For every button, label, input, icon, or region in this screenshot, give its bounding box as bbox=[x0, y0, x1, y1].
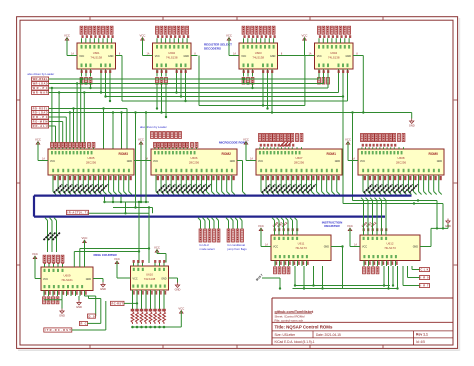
svg-text:VCC: VCC bbox=[138, 137, 144, 141]
svg-text:28C256: 28C256 bbox=[396, 161, 407, 165]
decoder U603 output wire right bbox=[278, 55, 285, 57]
svg-text:VCC: VCC bbox=[43, 278, 48, 281]
svg-text:74LS138: 74LS138 bbox=[90, 56, 102, 60]
U611 input pins from IR bus bbox=[274, 231, 276, 235]
ROM U607 output net name labels (slanted) bbox=[262, 184, 270, 192]
resistor R603 bbox=[140, 309, 144, 312]
svg-text:RD-MEM: RD-MEM bbox=[33, 120, 48, 124]
svg-text:74LS173: 74LS173 bbox=[295, 246, 307, 250]
ROM U606 output net name labels (slanted) bbox=[157, 184, 165, 192]
svg-text:GND: GND bbox=[127, 160, 133, 163]
svg-text:GND: GND bbox=[175, 288, 181, 292]
svg-text:U602: U602 bbox=[168, 51, 175, 55]
net label RD-PC bbox=[32, 115, 49, 119]
decoder U604 output wire right bbox=[353, 55, 360, 57]
svg-text:GND: GND bbox=[76, 305, 82, 309]
GND under pin 8 of U609 bbox=[78, 296, 80, 300]
svg-text:U603: U603 bbox=[255, 51, 262, 55]
net label IR0 bbox=[420, 276, 430, 280]
wire drop from U603 bbox=[284, 55, 305, 57]
svg-text:RD-ALU: RD-ALU bbox=[33, 124, 48, 128]
net label WR-LOAD bbox=[32, 82, 49, 86]
IR bus (lower) bbox=[34, 216, 385, 218]
GND wire from U611 bbox=[331, 246, 343, 248]
GND right of U609 bbox=[100, 282, 106, 291]
wire drop from U601 bbox=[121, 56, 123, 102]
ROM gap wires down to ring counter bbox=[135, 113, 137, 208]
decoder U604 74LS138 bbox=[315, 43, 354, 69]
frame zone tick marks bbox=[89, 17, 91, 21]
U610 bottom pins to resistor network bbox=[132, 290, 134, 309]
svg-text:WR-LOAD: WR-LOAD bbox=[33, 82, 48, 86]
slanted pin marks above U607 bbox=[280, 142, 285, 147]
wire drop from U602 bbox=[198, 56, 200, 106]
svg-text:RC-RST: RC-RST bbox=[112, 302, 124, 306]
svg-text:28C256: 28C256 bbox=[86, 161, 97, 165]
svg-text:IR-ACT[0..7]: IR-ACT[0..7] bbox=[68, 211, 88, 215]
net label RD-ALU bbox=[32, 124, 49, 128]
svg-text:ROM3: ROM3 bbox=[118, 152, 128, 156]
svg-text:VCC: VCC bbox=[302, 33, 308, 37]
svg-text:Title: NQSAP Control ROMs: Title: NQSAP Control ROMs bbox=[275, 325, 333, 330]
title block bbox=[272, 297, 453, 299]
VCC for U608 bbox=[345, 137, 351, 144]
ROM U608 28C256 (ROM0) bbox=[358, 149, 444, 175]
decoder U601 74LS138 bbox=[77, 43, 116, 69]
GND wire from U612 bbox=[420, 246, 431, 248]
GND wire for U605 bbox=[134, 160, 141, 162]
bus entries feeding U611 bbox=[272, 218, 275, 221]
U611 bottom pins bbox=[274, 261, 276, 267]
svg-text:GND: GND bbox=[345, 55, 351, 58]
svg-text:U601: U601 bbox=[93, 51, 100, 55]
svg-text:VCC: VCC bbox=[273, 246, 278, 249]
svg-text:VCC: VCC bbox=[226, 33, 232, 37]
net label RD-MEM bbox=[32, 120, 49, 124]
svg-text:VCC: VCC bbox=[154, 245, 160, 249]
svg-text:mode select: mode select bbox=[200, 247, 215, 251]
wires from U609 to labels below bbox=[75, 295, 77, 297]
wires right of U608 to GND rail bbox=[353, 200, 438, 202]
GND top right bbox=[409, 119, 415, 128]
decoder U602 74LS138 bbox=[153, 43, 192, 69]
VCC for U603 bbox=[226, 33, 232, 40]
net label RD-RSEL bbox=[32, 107, 49, 111]
svg-text:Id: 4/5: Id: 4/5 bbox=[416, 340, 425, 344]
net label RC-RST bbox=[111, 301, 125, 305]
horizontal wires mid (decoder selects) bbox=[106, 96, 344, 98]
svg-text:VCC: VCC bbox=[258, 224, 264, 228]
svg-text:28C256: 28C256 bbox=[294, 161, 305, 165]
ROM U606 top address pins with labels bbox=[154, 147, 156, 149]
svg-text:also driven by Loader: also driven by Loader bbox=[27, 72, 54, 76]
U604 pin pass-through wire down ROM gap bbox=[342, 77, 344, 97]
svg-text:1A: 1A bbox=[42, 157, 45, 160]
net label IR7 bbox=[420, 284, 430, 288]
svg-text:U611: U611 bbox=[298, 242, 305, 246]
ROM U606 28C256 (ROM2) bbox=[151, 149, 237, 175]
ROM U608 bottom data/output pins to bus bbox=[362, 175, 364, 192]
resistor pullup rail to VCC bbox=[133, 326, 182, 328]
net label WR-MAR bbox=[32, 91, 49, 95]
resistor R607 bbox=[158, 309, 162, 312]
svg-text:VCC: VCC bbox=[64, 33, 70, 37]
VCC for U606 bbox=[138, 137, 144, 144]
VCC power symbol bbox=[154, 245, 160, 252]
resistor R602 bbox=[135, 309, 139, 312]
resistor R606 bbox=[153, 309, 157, 312]
svg-text:WR-PC: WR-PC bbox=[33, 86, 48, 90]
decoder U602 bottom pins bbox=[156, 69, 158, 77]
net label CLK bbox=[420, 268, 430, 272]
GND instruction register bbox=[445, 219, 451, 229]
svg-text:GND: GND bbox=[335, 160, 341, 163]
svg-text:74LS173: 74LS173 bbox=[384, 246, 396, 250]
svg-text:1A: 1A bbox=[265, 243, 268, 246]
svg-text:74LS138: 74LS138 bbox=[328, 56, 340, 60]
page shadow bbox=[18, 349, 460, 351]
instruction register U611 74LS173 bbox=[271, 235, 331, 261]
svg-text:GND: GND bbox=[108, 55, 114, 58]
bus exits: ALU mode select group bbox=[198, 218, 201, 221]
wires feeding U612 from main bus bbox=[361, 198, 364, 201]
svg-text:28C256: 28C256 bbox=[189, 161, 200, 165]
svg-text:VCC: VCC bbox=[82, 236, 88, 240]
svg-text:U608: U608 bbox=[398, 156, 405, 160]
VCC above U609 bbox=[82, 236, 88, 243]
GND right of U609 bbox=[93, 278, 103, 280]
extra net labels above ROM U606 bbox=[151, 132, 154, 139]
resistor R608 bbox=[162, 309, 166, 312]
svg-text:1A: 1A bbox=[352, 157, 355, 160]
ROM U607 bottom data/output pins to bus bbox=[260, 175, 262, 192]
wires from bus down to ring counter inputs bbox=[45, 218, 48, 221]
GND right of U610 bbox=[169, 277, 178, 279]
decoder U603 bottom pins bbox=[243, 69, 245, 77]
svg-text:U610: U610 bbox=[146, 273, 153, 277]
VCC for U602 bbox=[140, 33, 146, 40]
svg-text:GND: GND bbox=[86, 278, 92, 281]
svg-text:VCC: VCC bbox=[258, 160, 263, 163]
U612 bottom pins bbox=[363, 261, 365, 267]
resistor R604 bbox=[144, 309, 148, 312]
ROM U607 top address pins with labels bbox=[259, 147, 261, 149]
VCC for pullups bbox=[178, 306, 184, 313]
svg-text:Size: USLetter: Size: USLetter bbox=[275, 333, 296, 337]
svg-text:WR-MAR: WR-MAR bbox=[33, 91, 48, 95]
svg-text:VCC: VCC bbox=[50, 160, 55, 163]
svg-text:CLK: CLK bbox=[421, 268, 429, 272]
ROM U605 top address pins with labels bbox=[51, 147, 53, 149]
svg-text:VCC: VCC bbox=[178, 306, 184, 310]
svg-text:VCC: VCC bbox=[35, 137, 41, 141]
U609 bottom pins bbox=[43, 291, 45, 297]
svg-text:1A: 1A bbox=[354, 243, 357, 246]
ROM U605 output net name labels (slanted) bbox=[54, 184, 62, 192]
svg-text:U609: U609 bbox=[64, 273, 71, 277]
svg-text:jump from flags: jump from flags bbox=[227, 247, 248, 251]
decoder U601 output wire right bbox=[116, 55, 123, 57]
U612 input pins from IR bus bbox=[363, 231, 365, 235]
svg-text:74LS138: 74LS138 bbox=[144, 277, 156, 281]
svg-text:GND: GND bbox=[161, 278, 167, 281]
net label ITR-RC-RST bbox=[44, 328, 72, 332]
bus label IR-ACT bbox=[67, 210, 89, 214]
svg-text:VCC: VCC bbox=[133, 278, 138, 281]
svg-text:GND: GND bbox=[59, 314, 65, 318]
decoder U603 top pins with net labels bbox=[243, 38, 245, 43]
VCC for U601 bbox=[64, 33, 70, 40]
ROM U608 top address pins with labels bbox=[361, 147, 363, 149]
gap wire right of ROM U607 bbox=[352, 113, 354, 201]
decoder enable/select wire drops bbox=[81, 79, 83, 84]
decoder U602 top pins with net labels bbox=[156, 38, 158, 43]
svg-text:1A: 1A bbox=[71, 52, 74, 55]
VCC for U604 bbox=[302, 33, 308, 40]
svg-text:File: control-roms.sch: File: control-roms.sch bbox=[275, 318, 304, 322]
svg-text:VCC: VCC bbox=[317, 55, 322, 58]
horizontal wires from left labels (group 1), ending at U604 pins bbox=[49, 78, 319, 80]
U609 bottom-left wires to GND bbox=[61, 296, 63, 300]
svg-text:also driven by Loader: also driven by Loader bbox=[140, 125, 167, 129]
svg-text:1A: 1A bbox=[147, 52, 150, 55]
svg-text:U606: U606 bbox=[191, 156, 198, 160]
svg-text:U607: U607 bbox=[296, 156, 303, 160]
svg-text:WR-RSEL: WR-RSEL bbox=[33, 77, 48, 81]
svg-text:VCC: VCC bbox=[345, 137, 351, 141]
svg-text:ROM0: ROM0 bbox=[428, 152, 438, 156]
decoder U601 top pins with net labels bbox=[81, 38, 83, 43]
resistor R601 bbox=[131, 309, 135, 312]
wires from bus to ring counter bbox=[104, 197, 106, 202]
VCC for U605 bbox=[35, 137, 41, 144]
svg-text:REGISTER: REGISTER bbox=[324, 224, 340, 228]
net label WR-PC bbox=[32, 86, 49, 90]
ROM U607 28C256 (ROM1) bbox=[256, 149, 342, 175]
svg-text:GND: GND bbox=[409, 124, 415, 128]
VCC for U607 bbox=[243, 137, 249, 144]
svg-text:GND: GND bbox=[100, 287, 106, 291]
svg-text:VCC: VCC bbox=[79, 55, 84, 58]
decoder U602 output wire right bbox=[191, 55, 198, 57]
svg-text:VCC: VCC bbox=[347, 224, 353, 228]
svg-text:VCC: VCC bbox=[243, 137, 249, 141]
svg-text:U604: U604 bbox=[330, 51, 337, 55]
svg-text:74LS161: 74LS161 bbox=[61, 278, 73, 282]
svg-text:74LS138: 74LS138 bbox=[166, 56, 178, 60]
svg-text:DECODERS: DECODERS bbox=[204, 46, 221, 50]
svg-text:VCC: VCC bbox=[155, 55, 160, 58]
instruction register U612 74LS173 bbox=[360, 235, 420, 261]
main microcode bus (upper) bbox=[34, 195, 412, 197]
wire drop from U604 bbox=[360, 55, 364, 57]
svg-text:74LS138: 74LS138 bbox=[252, 56, 264, 60]
VCC for U612 bbox=[347, 224, 353, 231]
svg-text:ROM1: ROM1 bbox=[326, 152, 336, 156]
GND below U609 pin8 bbox=[76, 300, 82, 309]
net label WR-RSEL bbox=[32, 77, 49, 81]
U610 top pins bbox=[133, 263, 135, 267]
ROM U605 28C256 (ROM3) bbox=[48, 149, 134, 175]
svg-text:ITR-RC-RST: ITR-RC-RST bbox=[45, 328, 71, 332]
svg-text:VCC: VCC bbox=[362, 246, 367, 249]
svg-text:VCC: VCC bbox=[360, 160, 365, 163]
ring counter decoder U610 74LS138 bbox=[131, 266, 169, 290]
svg-text:Rev 1.1: Rev 1.1 bbox=[416, 333, 428, 337]
svg-text:RD-LOAD: RD-LOAD bbox=[33, 111, 48, 115]
decoder U604 bottom pins bbox=[318, 69, 320, 77]
VCC left of U609 bbox=[32, 252, 38, 259]
horizontal wires from left labels (group 2) bbox=[49, 108, 127, 110]
ROM U605 bottom data/output pins to bus bbox=[52, 175, 54, 192]
ROM U606 bottom data/output pins to bus bbox=[155, 175, 157, 192]
resistor R605 bbox=[149, 309, 153, 312]
svg-text:VCC: VCC bbox=[241, 55, 246, 58]
decoder U603 74LS138 bbox=[239, 43, 278, 69]
svg-text:U605: U605 bbox=[88, 156, 95, 160]
GND below U609 bbox=[59, 309, 65, 318]
svg-text:1A: 1A bbox=[233, 52, 236, 55]
svg-text:VCC: VCC bbox=[140, 33, 146, 37]
U609 clock feedback wires bbox=[73, 252, 75, 268]
net label RC bbox=[80, 321, 88, 325]
svg-text:github.com/TomNisbet: github.com/TomNisbet bbox=[275, 310, 314, 314]
ring counter U609 74LS161 bbox=[41, 267, 93, 291]
svg-text:1A: 1A bbox=[250, 157, 253, 160]
wire to GND top right bbox=[411, 113, 413, 119]
svg-text:ROM2: ROM2 bbox=[221, 152, 231, 156]
svg-text:RD-RSEL: RD-RSEL bbox=[33, 107, 48, 111]
wires down into ROM U605 right-side pins bbox=[112, 113, 114, 150]
VCC left of U610 bbox=[114, 257, 120, 264]
svg-text:GND: GND bbox=[270, 55, 276, 58]
net label D0 bbox=[88, 314, 96, 318]
U609 top pins with labels bbox=[44, 264, 46, 268]
svg-text:GND: GND bbox=[183, 55, 189, 58]
bus exits: conditional jump group bbox=[226, 218, 229, 221]
ROM U608 output net name labels (slanted) bbox=[364, 184, 372, 192]
svg-text:VCC: VCC bbox=[32, 252, 38, 256]
svg-text:U612: U612 bbox=[387, 242, 394, 246]
GND right of U610 bbox=[175, 283, 181, 292]
net label RD-LOAD bbox=[32, 111, 49, 115]
bus vertical left bbox=[33, 196, 35, 217]
svg-text:Date: 2021-04-15: Date: 2021-04-15 bbox=[316, 333, 341, 337]
svg-text:GND: GND bbox=[413, 246, 419, 249]
svg-text:GND: GND bbox=[324, 246, 330, 249]
svg-text:VCC: VCC bbox=[153, 160, 158, 163]
VCC for U611 bbox=[258, 224, 264, 231]
svg-text:GND: GND bbox=[230, 160, 236, 163]
GND wire for U606 bbox=[237, 160, 243, 162]
IR output wires bbox=[295, 285, 390, 287]
svg-text:1A: 1A bbox=[309, 52, 312, 55]
decoder U601 bottom pins bbox=[81, 69, 83, 77]
svg-text:GND: GND bbox=[437, 160, 443, 163]
svg-text:GND: GND bbox=[445, 224, 451, 228]
svg-text:VCC: VCC bbox=[114, 257, 120, 261]
decoder U604 top pins with net labels bbox=[318, 38, 320, 43]
svg-text:KiCad E.D.A. kicad (5.1.9)-1: KiCad E.D.A. kicad (5.1.9)-1 bbox=[275, 340, 315, 344]
